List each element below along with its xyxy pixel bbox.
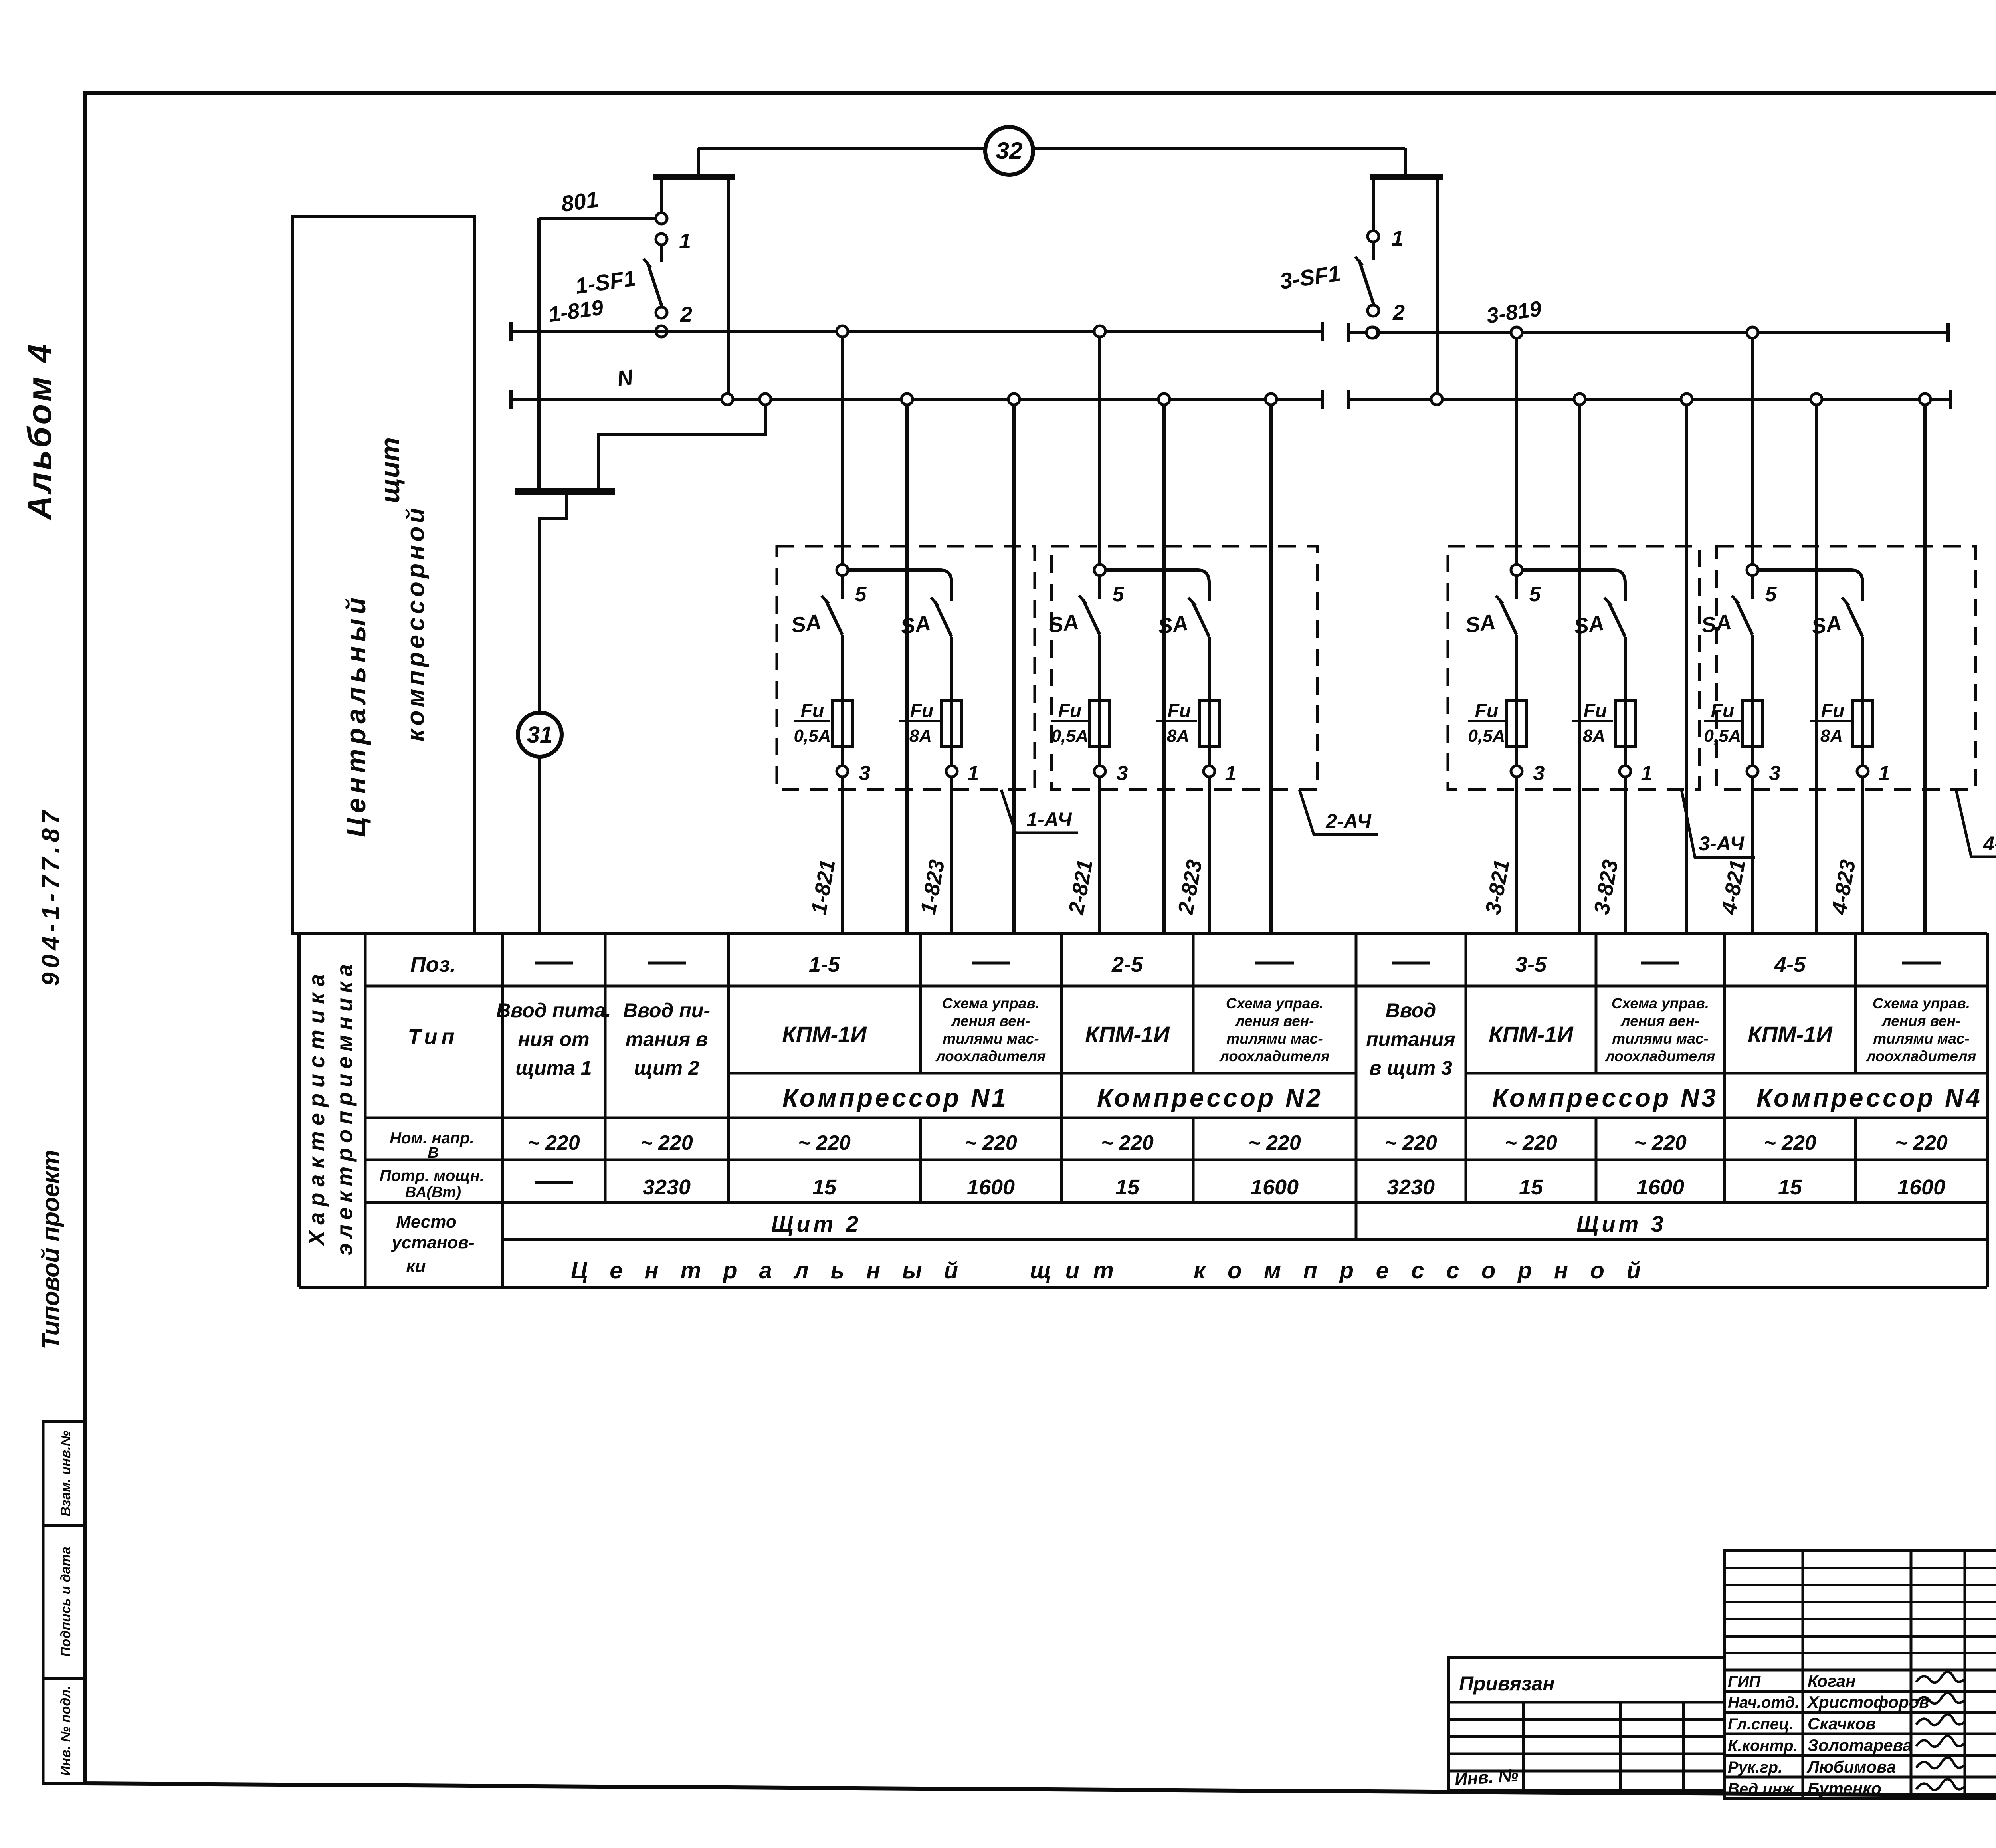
svg-text:15: 15	[1778, 1175, 1802, 1199]
svg-text:Нач.отд.: Нач.отд.	[1728, 1694, 1799, 1711]
svg-text:SA: SA	[790, 610, 823, 638]
svg-text:Ввод пита.: Ввод пита.	[496, 999, 611, 1022]
svg-text:1-АЧ: 1-АЧ	[1026, 808, 1072, 831]
svg-text:~ 220: ~ 220	[1764, 1131, 1816, 1155]
svg-text:Ввод: Ввод	[1386, 999, 1436, 1022]
svg-text:Взам. инв.№: Взам. инв.№	[58, 1430, 73, 1516]
svg-text:ГИП: ГИП	[1728, 1673, 1761, 1690]
svg-text:0,5A: 0,5A	[1704, 726, 1741, 746]
svg-text:5: 5	[1765, 583, 1777, 606]
svg-text:Тип: Тип	[408, 1025, 459, 1049]
svg-text:~ 220: ~ 220	[798, 1131, 851, 1155]
svg-text:ки: ки	[406, 1256, 426, 1276]
svg-text:~ 220: ~ 220	[527, 1131, 580, 1155]
svg-text:Fu: Fu	[1711, 700, 1735, 721]
svg-text:3-5: 3-5	[1515, 953, 1547, 976]
svg-text:Центральный: Центральный	[571, 1258, 958, 1283]
svg-text:Характеристика: Характеристика	[304, 974, 329, 1247]
svg-text:ВА(Вт): ВА(Вт)	[405, 1184, 461, 1201]
svg-text:0,5A: 0,5A	[1468, 726, 1505, 746]
svg-text:Инв. № подл.: Инв. № подл.	[58, 1686, 73, 1776]
svg-text:1600: 1600	[967, 1175, 1015, 1199]
svg-text:5: 5	[855, 583, 867, 606]
svg-text:8A: 8A	[909, 726, 932, 746]
svg-text:3-819: 3-819	[1485, 297, 1543, 328]
svg-text:2: 2	[680, 303, 692, 327]
svg-text:SA: SA	[1810, 611, 1843, 639]
svg-text:15: 15	[812, 1175, 837, 1199]
svg-text:2: 2	[1392, 301, 1405, 325]
svg-text:0,5A: 0,5A	[794, 726, 831, 746]
svg-text:Подпись и дата: Подпись и дата	[58, 1547, 73, 1657]
svg-text:2-823: 2-823	[1174, 858, 1207, 917]
svg-text:лоохладителя: лоохладителя	[1219, 1048, 1330, 1064]
svg-text:компрессорной: компрессорной	[1194, 1258, 1641, 1283]
svg-text:15: 15	[1115, 1175, 1140, 1199]
svg-text:Золотарева: Золотарева	[1808, 1736, 1912, 1755]
svg-text:Типовой проект: Типовой проект	[37, 1150, 65, 1349]
svg-text:Fu: Fu	[1584, 700, 1607, 721]
svg-text:Щит 2: Щит 2	[771, 1211, 861, 1236]
svg-text:3230: 3230	[1387, 1175, 1435, 1199]
svg-text:Альбом 4: Альбом 4	[21, 344, 58, 521]
svg-text:Рук.гр.: Рук.гр.	[1728, 1759, 1782, 1776]
svg-text:Компрессор N1: Компрессор N1	[782, 1083, 1006, 1112]
svg-text:Гл.спец.: Гл.спец.	[1728, 1715, 1794, 1733]
svg-text:Компрессор N2: Компрессор N2	[1097, 1083, 1321, 1112]
svg-text:2-АЧ: 2-АЧ	[1325, 810, 1372, 832]
svg-text:~ 220: ~ 220	[1384, 1131, 1437, 1155]
svg-text:1600: 1600	[1897, 1175, 1945, 1199]
svg-text:лоохладителя: лоохладителя	[935, 1048, 1046, 1064]
svg-text:~ 220: ~ 220	[1248, 1131, 1301, 1155]
svg-text:Любимова: Любимова	[1806, 1757, 1896, 1776]
svg-text:8A: 8A	[1167, 726, 1189, 746]
svg-text:4-821: 4-821	[1717, 858, 1750, 917]
svg-text:тания в: тания в	[626, 1028, 708, 1050]
svg-text:1: 1	[1225, 762, 1237, 785]
svg-text:1-819: 1-819	[547, 295, 605, 327]
svg-text:31: 31	[527, 722, 553, 748]
svg-text:32: 32	[996, 137, 1023, 164]
svg-text:Место: Место	[396, 1212, 457, 1232]
svg-text:электроприемника: электроприемника	[332, 964, 357, 1256]
svg-text:2-5: 2-5	[1111, 953, 1143, 976]
svg-text:1: 1	[679, 229, 691, 253]
svg-text:КПМ-1И: КПМ-1И	[1085, 1022, 1170, 1047]
svg-text:Бутенко: Бутенко	[1808, 1779, 1881, 1798]
svg-text:SA: SA	[1572, 611, 1606, 639]
svg-text:3: 3	[1117, 762, 1128, 785]
svg-text:Fu: Fu	[1821, 700, 1845, 721]
svg-text:3: 3	[1533, 762, 1545, 785]
svg-text:Ввод пи-: Ввод пи-	[623, 999, 710, 1022]
svg-text:КПМ-1И: КПМ-1И	[782, 1022, 867, 1047]
svg-text:SA: SA	[1700, 610, 1733, 638]
svg-text:тилями мас-: тилями мас-	[1873, 1030, 1969, 1047]
svg-text:~ 220: ~ 220	[1895, 1131, 1948, 1155]
svg-text:2-821: 2-821	[1064, 858, 1097, 917]
svg-text:3-821: 3-821	[1481, 858, 1514, 916]
svg-text:установ-: установ-	[391, 1233, 474, 1252]
svg-text:К.контр.: К.контр.	[1728, 1737, 1798, 1755]
svg-text:1-SF1: 1-SF1	[574, 265, 638, 299]
svg-text:тилями мас-: тилями мас-	[1612, 1030, 1708, 1047]
svg-text:Привязан: Привязан	[1459, 1672, 1555, 1695]
svg-text:КПМ-1И: КПМ-1И	[1489, 1022, 1574, 1047]
svg-text:5: 5	[1529, 583, 1541, 606]
svg-text:1-823: 1-823	[916, 858, 949, 916]
svg-text:SA: SA	[1047, 610, 1080, 638]
svg-text:Схема управ.: Схема управ.	[1873, 995, 1970, 1012]
svg-text:Щит 3: Щит 3	[1576, 1211, 1667, 1236]
svg-text:SA: SA	[1156, 611, 1190, 639]
svg-text:~ 220: ~ 220	[964, 1131, 1017, 1155]
svg-text:тилями мас-: тилями мас-	[943, 1030, 1039, 1047]
svg-text:Коган: Коган	[1808, 1672, 1855, 1690]
svg-text:8A: 8A	[1583, 726, 1605, 746]
svg-text:1-5: 1-5	[809, 953, 840, 976]
svg-text:лоохладителя: лоохладителя	[1605, 1048, 1715, 1064]
svg-text:ления вен-: ления вен-	[1620, 1013, 1700, 1029]
svg-text:Компрессор N3: Компрессор N3	[1492, 1083, 1716, 1112]
svg-text:3-АЧ: 3-АЧ	[1699, 832, 1745, 855]
svg-text:3: 3	[859, 762, 871, 785]
svg-text:1: 1	[1641, 762, 1653, 785]
svg-text:1: 1	[1879, 762, 1890, 785]
svg-text:~ 220: ~ 220	[640, 1131, 693, 1155]
svg-text:Инв. №: Инв. №	[1454, 1765, 1519, 1789]
svg-text:Fu: Fu	[801, 700, 824, 721]
svg-text:SA: SA	[1464, 610, 1497, 638]
svg-text:щит 2: щит 2	[634, 1057, 699, 1079]
svg-text:компрессорной: компрессорной	[402, 508, 430, 742]
svg-text:Fu: Fu	[1058, 700, 1082, 721]
svg-text:ния от: ния от	[518, 1028, 589, 1050]
svg-text:тилями мас-: тилями мас-	[1226, 1030, 1323, 1047]
svg-text:Поз.: Поз.	[410, 953, 456, 976]
svg-text:щита 1: щита 1	[515, 1057, 592, 1079]
svg-text:~ 220: ~ 220	[1101, 1131, 1154, 1155]
svg-text:Потр. мощн.: Потр. мощн.	[380, 1167, 484, 1184]
svg-text:1600: 1600	[1251, 1175, 1299, 1199]
svg-text:8A: 8A	[1820, 726, 1843, 746]
svg-text:15: 15	[1519, 1175, 1543, 1199]
svg-text:1-821: 1-821	[807, 858, 840, 916]
svg-text:Fu: Fu	[910, 700, 934, 721]
svg-text:Схема управ.: Схема управ.	[942, 995, 1040, 1012]
svg-text:Fu: Fu	[1168, 700, 1191, 721]
svg-text:SA: SA	[899, 611, 932, 639]
svg-text:Схема управ.: Схема управ.	[1226, 995, 1323, 1012]
svg-text:~ 220: ~ 220	[1505, 1131, 1557, 1155]
svg-text:3-SF1: 3-SF1	[1278, 260, 1342, 294]
svg-text:1600: 1600	[1636, 1175, 1684, 1199]
svg-text:4-823: 4-823	[1827, 858, 1860, 917]
svg-text:Скачков: Скачков	[1808, 1714, 1876, 1733]
svg-text:щит: щит	[375, 437, 405, 503]
svg-text:ления вен-: ления вен-	[1881, 1013, 1961, 1029]
svg-text:1: 1	[968, 762, 979, 785]
svg-text:В: В	[428, 1145, 438, 1161]
svg-text:КПМ-1И: КПМ-1И	[1748, 1022, 1833, 1047]
svg-text:щит: щит	[1030, 1258, 1114, 1283]
svg-text:Христофоров: Христофоров	[1807, 1693, 1929, 1711]
svg-text:N: N	[616, 365, 635, 391]
svg-text:5: 5	[1113, 583, 1125, 606]
svg-text:в щит 3: в щит 3	[1369, 1057, 1452, 1079]
svg-text:4-АЧ: 4-АЧ	[1983, 832, 1996, 855]
svg-text:Вед.инж.: Вед.инж.	[1728, 1780, 1798, 1798]
svg-text:Компрессор N4: Компрессор N4	[1756, 1083, 1980, 1112]
svg-text:ления вен-: ления вен-	[1235, 1013, 1314, 1029]
svg-text:3-823: 3-823	[1590, 858, 1623, 916]
svg-text:Fu: Fu	[1475, 700, 1499, 721]
svg-text:0,5A: 0,5A	[1051, 726, 1089, 746]
svg-text:лоохладителя: лоохладителя	[1866, 1048, 1976, 1064]
svg-text:ления вен-: ления вен-	[951, 1013, 1030, 1029]
svg-text:904-1-77.87: 904-1-77.87	[37, 809, 65, 986]
svg-text:питания: питания	[1366, 1028, 1455, 1050]
svg-text:4-5: 4-5	[1774, 953, 1806, 976]
svg-text:~ 220: ~ 220	[1634, 1131, 1687, 1155]
svg-text:801: 801	[560, 186, 600, 216]
svg-text:1: 1	[1392, 226, 1404, 250]
svg-text:Центральный: Центральный	[341, 598, 371, 837]
svg-text:Схема управ.: Схема управ.	[1612, 995, 1709, 1012]
svg-text:3: 3	[1769, 762, 1781, 785]
svg-text:3230: 3230	[643, 1175, 691, 1199]
